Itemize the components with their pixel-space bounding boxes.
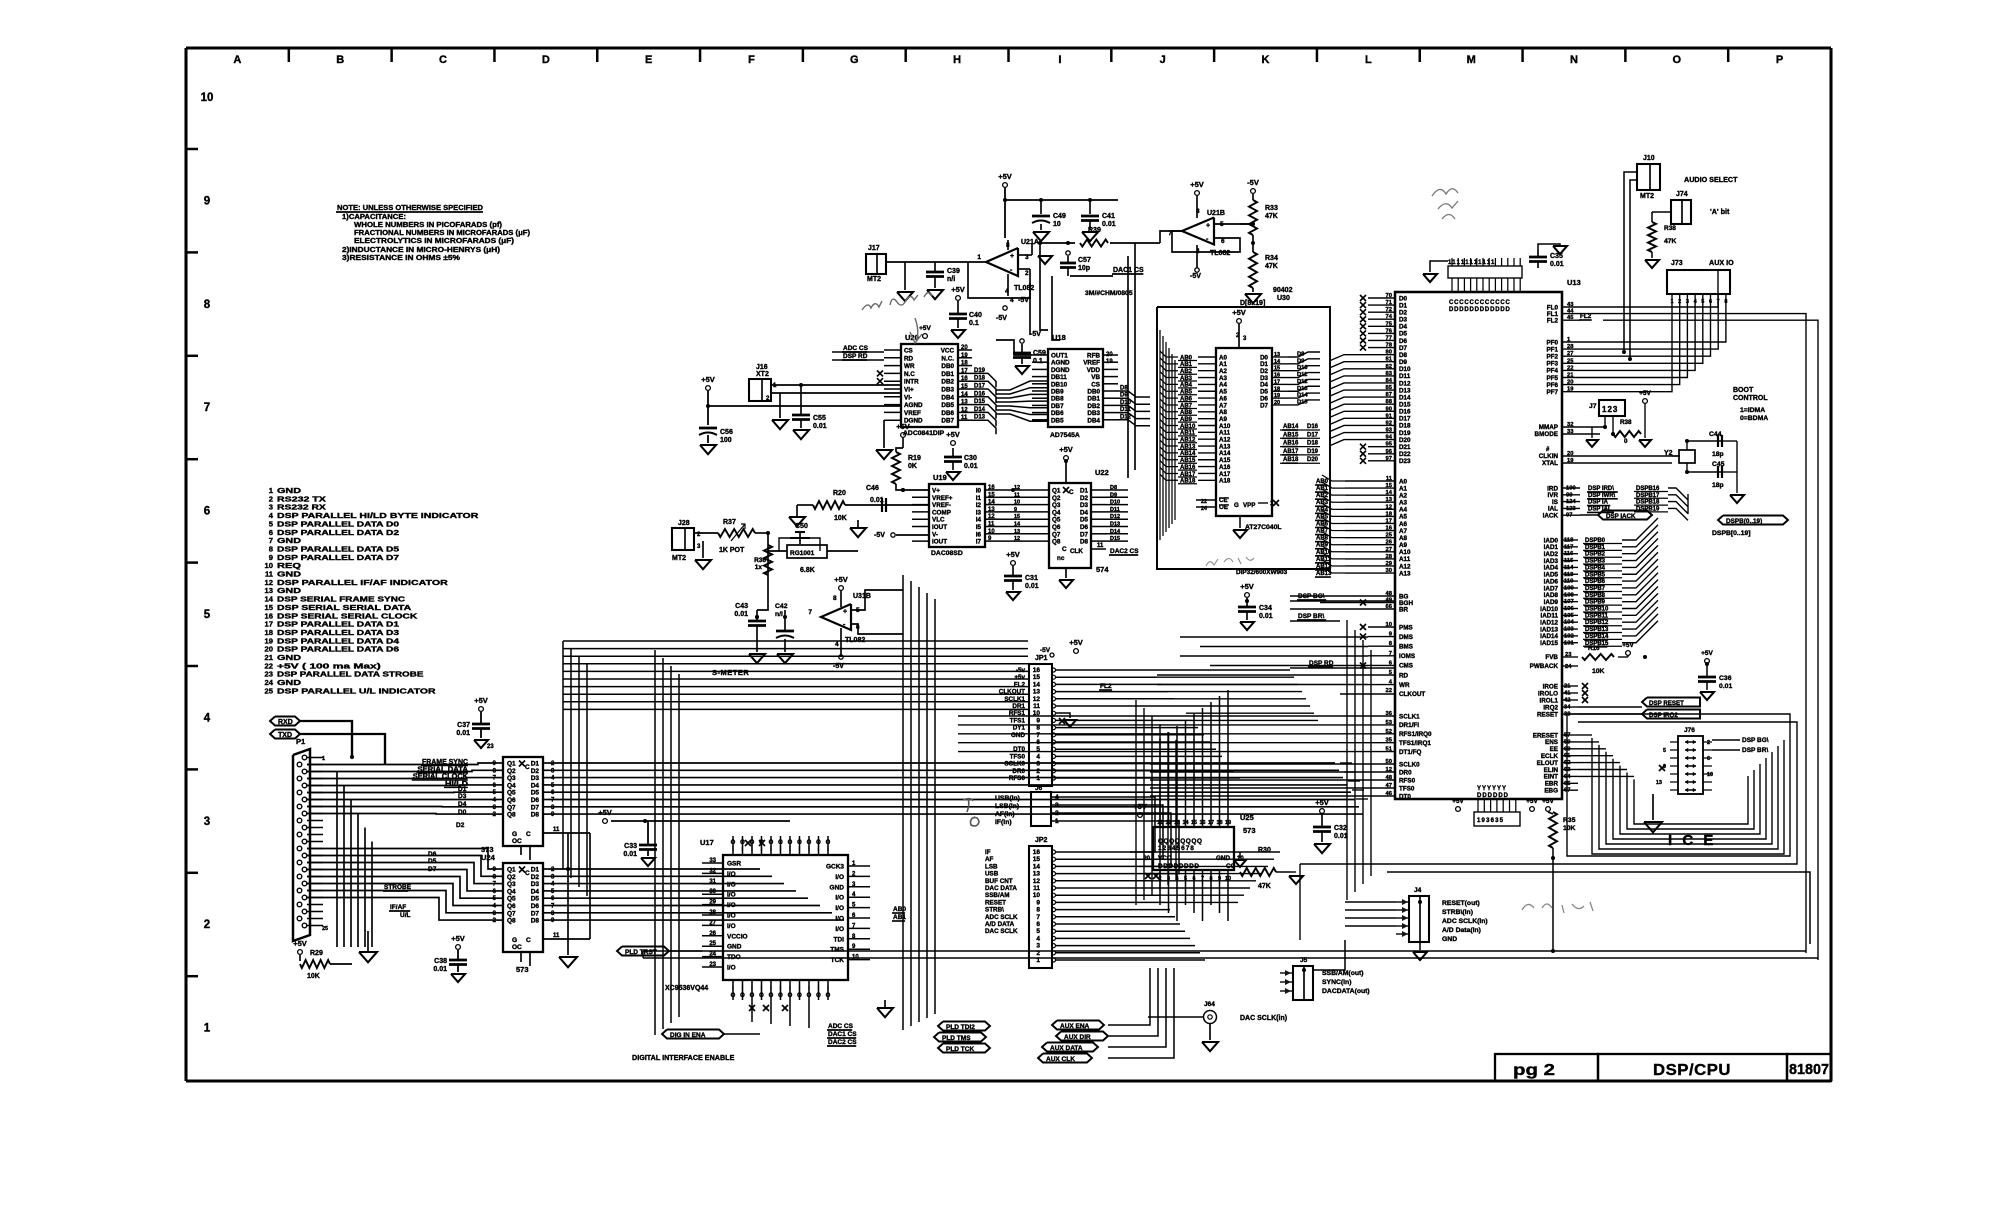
wires opamp U21A [950, 261, 986, 263]
bus box around EPROM D8..19 [1157, 307, 1330, 569]
svg-text:C59: C59 [1033, 350, 1046, 357]
ground J28 [702, 541, 704, 558]
ground crystal [1736, 441, 1738, 493]
svg-text:A2: A2 [1399, 492, 1408, 499]
svg-text:D7: D7 [1080, 531, 1089, 538]
svg-text:D17: D17 [1399, 416, 1411, 423]
svg-text:2: 2 [1025, 270, 1029, 277]
wire bus control rows to cpu left [1290, 595, 1368, 597]
x marks U25 [1145, 873, 1151, 879]
ground under latch bus [567, 833, 569, 955]
svg-text:C: C [1069, 489, 1074, 496]
svg-text:13: 13 [1014, 529, 1020, 535]
net label AUX CLK [1038, 1054, 1092, 1063]
svg-text:A/D Data(in): A/D Data(in) [1442, 927, 1481, 934]
svg-text:D11: D11 [1399, 373, 1411, 380]
svg-text:O: O [1673, 54, 1682, 66]
CPLD U17 XC9536 [723, 855, 848, 980]
svg-text:99: 99 [1566, 492, 1573, 498]
svg-text:13: 13 [1656, 780, 1662, 786]
svg-text:13: 13 [1274, 352, 1280, 358]
wires P1 pins to vertical bus [307, 757, 323, 759]
svg-text:0.01: 0.01 [623, 851, 637, 858]
svg-text:48: 48 [1386, 775, 1393, 781]
svg-text:D3: D3 [1080, 502, 1089, 509]
svg-text:25: 25 [1567, 358, 1574, 364]
resistor R19 10K [892, 452, 900, 484]
svg-text:16: 16 [1033, 667, 1041, 674]
svg-text:P1: P1 [296, 737, 305, 746]
svg-text:19: 19 [1567, 387, 1574, 393]
svg-text:13: 13 [961, 400, 968, 406]
svg-text:DAC SCLK(in): DAC SCLK(in) [1240, 1015, 1287, 1022]
svg-text:RFS1/IRQ0: RFS1/IRQ0 [1399, 731, 1432, 738]
wires JP1 right fan [1056, 669, 1150, 671]
svg-text:32: 32 [709, 868, 716, 874]
svg-text:Q8: Q8 [507, 812, 516, 819]
svg-text:'A' bit: 'A' bit [1710, 207, 1730, 216]
svg-text:DR1: DR1 [1012, 703, 1025, 710]
svg-text:PWBACK: PWBACK [1530, 663, 1559, 670]
svg-text:13: 13 [1033, 689, 1041, 696]
cpu bottom pin numbers box [1474, 812, 1520, 826]
svg-text:C38: C38 [434, 958, 447, 965]
svg-text:D3: D3 [531, 775, 540, 782]
svg-text:14: 14 [1274, 359, 1281, 365]
svg-text:Y2: Y2 [1664, 450, 1673, 457]
svg-text:I/O: I/O [727, 892, 736, 899]
svg-text:GND: GND [1442, 936, 1457, 943]
U25 top pin wires [1159, 738, 1161, 827]
svg-text:9: 9 [204, 195, 210, 207]
svg-text:48: 48 [1386, 591, 1393, 597]
svg-text:Q1: Q1 [507, 761, 516, 768]
svg-text:DB9: DB9 [1051, 389, 1064, 396]
svg-text:DSP IWR\: DSP IWR\ [1588, 493, 1616, 499]
svg-text:8: 8 [204, 299, 211, 311]
svg-text:1: 1 [204, 1023, 211, 1035]
svg-text:N.C: N.C [904, 371, 915, 378]
svg-text:31: 31 [709, 879, 716, 885]
svg-text:R39: R39 [1088, 227, 1101, 234]
wires U21B [1214, 223, 1253, 225]
capacitor C41 0.01 [1089, 200, 1091, 214]
svg-text:Q2: Q2 [507, 768, 516, 775]
svg-text:2: 2 [1707, 740, 1710, 746]
svg-text:DAC2 CS: DAC2 CS [1110, 548, 1139, 555]
ICE wire loops [1578, 734, 1592, 736]
svg-text:4: 4 [835, 641, 839, 648]
ground RG area [850, 528, 866, 537]
svg-text:SSB/AM(out): SSB/AM(out) [1322, 970, 1364, 977]
svg-text:101: 101 [1564, 640, 1574, 646]
svg-text:5: 5 [204, 609, 211, 621]
svg-text:C31: C31 [1025, 575, 1038, 582]
svg-text:D16: D16 [1399, 409, 1411, 416]
svg-text:STRB\(in): STRB\(in) [1442, 909, 1473, 916]
svg-text:CLK: CLK [1070, 548, 1083, 555]
svg-text:DB5: DB5 [941, 402, 954, 409]
svg-text:D18: D18 [1307, 441, 1319, 447]
svg-text:17: 17 [961, 368, 968, 374]
svg-text:DGND: DGND [1051, 367, 1070, 374]
svg-text:6: 6 [1707, 756, 1710, 762]
svg-text:C57: C57 [1078, 257, 1091, 264]
svg-text:SCLK0: SCLK0 [1004, 761, 1025, 768]
svg-text:GND: GND [727, 944, 742, 951]
svg-text:CLKIN: CLKIN [1539, 453, 1559, 460]
capacitor C56 100 [699, 427, 717, 430]
svg-text:6: 6 [1709, 299, 1712, 305]
svg-text:14: 14 [1033, 863, 1041, 870]
svg-text:n/i: n/i [947, 276, 955, 283]
svg-text:78: 78 [1386, 343, 1393, 349]
wire J16 to ADC VI- [771, 392, 901, 394]
svg-text:DAC DATA: DAC DATA [985, 885, 1017, 892]
svg-text:V+: V+ [932, 488, 940, 495]
svg-text:BMS: BMS [1399, 644, 1413, 651]
svg-text:CLKOUT: CLKOUT [999, 689, 1025, 696]
svg-text:PF7: PF7 [1546, 389, 1558, 396]
svg-text:O: O [816, 993, 821, 999]
svg-text:3: 3 [1686, 299, 1689, 305]
svg-text:K: K [1262, 54, 1270, 66]
capacitor C30 0.01 [952, 448, 954, 456]
svg-text:D6: D6 [531, 903, 540, 910]
wire bus P1 vertical columns [336, 772, 338, 948]
svg-text:29: 29 [1386, 561, 1393, 567]
svg-text:+5V: +5V [451, 934, 465, 943]
svg-text:RFS0: RFS0 [1009, 775, 1026, 782]
svg-text:41: 41 [1564, 691, 1571, 697]
svg-text:O: O [816, 840, 821, 846]
latch U23 74x373 [503, 757, 543, 846]
svg-text:DSP/CPU: DSP/CPU [1653, 1062, 1731, 1079]
svg-text:47: 47 [1386, 783, 1392, 789]
svg-text:D8: D8 [531, 812, 540, 819]
svg-text:26: 26 [1386, 540, 1393, 546]
svg-text:DB7: DB7 [1051, 403, 1064, 410]
svg-text:U17: U17 [700, 838, 714, 847]
svg-text:80: 80 [1386, 350, 1392, 356]
svg-text:-5V: -5V [1018, 297, 1029, 304]
svg-text:Q5: Q5 [1052, 517, 1061, 524]
svg-text:O: O [759, 993, 764, 999]
svg-text:100: 100 [720, 437, 732, 444]
net label TXD [270, 730, 300, 739]
svg-text:R34: R34 [1265, 255, 1278, 262]
svg-text:13: 13 [988, 507, 995, 513]
svg-text:84: 84 [1386, 378, 1393, 384]
wire pot to cap node [757, 533, 768, 610]
svg-text:C46: C46 [866, 485, 879, 492]
svg-text:PF4: PF4 [1546, 368, 1558, 375]
svg-text:16: 16 [961, 376, 968, 382]
svg-text:D3: D3 [458, 793, 467, 800]
svg-text:IROE: IROE [1543, 683, 1558, 690]
svg-text:28: 28 [709, 910, 716, 916]
svg-text:TFS0: TFS0 [1399, 785, 1415, 792]
svg-text:0.01: 0.01 [1719, 683, 1732, 690]
svg-text:D[8..19]: D[8..19] [1240, 300, 1265, 307]
svg-text:VDD: VDD [1087, 367, 1101, 374]
vertical wire bundle center2 [902, 575, 904, 1030]
svg-text:VB: VB [1091, 374, 1100, 381]
svg-text:10: 10 [1707, 772, 1713, 778]
svg-text:D2: D2 [531, 874, 540, 881]
svg-text:D8: D8 [1399, 352, 1408, 359]
svg-text:1)CAPACITANCE:: 1)CAPACITANCE: [342, 214, 406, 221]
svg-text:I/O: I/O [727, 881, 736, 888]
wire fan P1 to U24 with net names [307, 849, 497, 870]
long wire bus latch U24 outputs to right [549, 868, 760, 870]
svg-text:28: 28 [1567, 344, 1574, 350]
wires J17 to opamp [886, 261, 950, 263]
svg-text:VI+: VI+ [904, 387, 914, 394]
svg-text:18p: 18p [1712, 482, 1724, 489]
svg-text:ADC CS: ADC CS [828, 1023, 854, 1030]
svg-text:D3: D3 [531, 881, 540, 888]
svg-text:O: O [750, 993, 755, 999]
svg-text:29: 29 [709, 900, 716, 906]
svg-text:B: B [336, 54, 344, 66]
svg-text:C: C [526, 831, 531, 838]
svg-text:pg 2: pg 2 [1513, 1062, 1555, 1079]
bundle D19..D13 into U18 [996, 381, 1048, 390]
svg-text:OC: OC [512, 944, 522, 951]
svg-text:CONTROL: CONTROL [1733, 395, 1768, 402]
svg-text:6.8K: 6.8K [800, 567, 815, 574]
svg-text:A18: A18 [1219, 478, 1231, 485]
svg-text:24: 24 [709, 952, 716, 958]
svg-text:5: 5 [1663, 748, 1666, 754]
svg-text:D10: D10 [1399, 366, 1411, 373]
svg-text:IF/AF: IF/AF [390, 904, 406, 911]
svg-text:RFB: RFB [1087, 353, 1100, 360]
svg-text:PF1: PF1 [1546, 346, 1558, 353]
svg-text:107: 107 [1564, 599, 1574, 605]
title block DSP/CPU [1598, 1054, 1787, 1081]
svg-text:A3: A3 [1399, 500, 1408, 507]
svg-text:11: 11 [553, 933, 560, 939]
opamp U21B TL082 [1182, 218, 1214, 245]
svg-text:D22: D22 [1399, 451, 1411, 458]
svg-text:ELECTROLYTICS IN MICROFARADS (: ELECTROLYTICS IN MICROFARADS (μF) [354, 238, 514, 245]
svg-text:D14: D14 [1110, 529, 1121, 535]
svg-text:18: 18 [1386, 511, 1393, 517]
svg-text:27: 27 [1386, 547, 1392, 553]
wire J16 to ADC VI+ [771, 384, 901, 386]
svg-text:D13: D13 [1399, 387, 1411, 394]
net label PLD TCK [938, 1044, 990, 1053]
svg-text:+5V: +5V [1315, 798, 1329, 807]
svg-text:O: O [778, 993, 783, 999]
ground center bottom [877, 1008, 893, 1017]
svg-text:D5: D5 [531, 896, 540, 903]
svg-text:+5V: +5V [1059, 445, 1073, 454]
svg-text:nc: nc [1057, 555, 1065, 562]
long wire bus latch U23 outputs to right [549, 762, 1335, 764]
svg-text:VCC: VCC [941, 348, 955, 355]
svg-text:D4: D4 [1399, 324, 1408, 331]
resistor R34 47K [1249, 252, 1257, 288]
wire bus DAC08 to U22 [1000, 489, 1049, 491]
wires CPLD bottom to chip selects [751, 1000, 753, 1022]
svg-text:11: 11 [553, 827, 560, 833]
svg-text:24: 24 [1565, 664, 1572, 670]
svg-text:C: C [1062, 546, 1067, 553]
svg-text:0.01: 0.01 [813, 423, 827, 430]
svg-text:OC: OC [512, 838, 522, 845]
svg-text:D11: D11 [1110, 507, 1120, 513]
svg-text:10: 10 [988, 529, 995, 535]
svg-text:D1: D1 [458, 786, 467, 793]
svg-text:114: 114 [1564, 565, 1574, 571]
svg-text:FL2: FL2 [1100, 683, 1112, 690]
svg-text:DR1/FI: DR1/FI [1399, 722, 1419, 729]
svg-text:27: 27 [709, 920, 716, 926]
fan data D8-D20 from eprom bus to cpu [1330, 355, 1368, 361]
svg-text:Q1: Q1 [1052, 488, 1061, 495]
svg-text:D4: D4 [531, 782, 540, 789]
svg-text:12: 12 [1386, 767, 1392, 773]
svg-text:U19: U19 [933, 473, 947, 482]
handwriting rev [1522, 902, 1593, 913]
svg-text:36: 36 [1386, 711, 1393, 717]
svg-text:DSP RD: DSP RD [843, 353, 868, 360]
svg-text:+: + [843, 609, 847, 616]
svg-text:0.01: 0.01 [964, 463, 978, 470]
svg-text:S-METER: S-METER [712, 668, 749, 677]
svg-text:DAC2 CS: DAC2 CS [828, 1039, 857, 1046]
svg-text:1K POT: 1K POT [719, 547, 745, 554]
svg-text:DSPB(0..19): DSPB(0..19) [1726, 518, 1762, 525]
svg-text:J: J [1160, 54, 1166, 66]
svg-text:FL2: FL2 [1014, 681, 1026, 688]
svg-text:16: 16 [988, 485, 995, 491]
svg-text:VREF: VREF [1083, 360, 1100, 367]
svg-text:G: G [512, 937, 517, 944]
svg-text:I/O: I/O [835, 895, 844, 902]
opamp U21A TL082 [986, 248, 1018, 276]
svg-text:+: + [1010, 253, 1014, 260]
svg-text:+5V: +5V [1069, 638, 1083, 647]
vertical wire bundle center [654, 650, 656, 1035]
svg-text:10K: 10K [1563, 825, 1576, 832]
svg-text:8: 8 [833, 595, 837, 602]
wire DAC1 bus verticals [1127, 256, 1129, 478]
svg-text:116: 116 [1564, 551, 1574, 557]
svg-text:10: 10 [201, 92, 214, 104]
svg-text:32: 32 [1567, 422, 1573, 428]
svg-text:BOOT: BOOT [1733, 387, 1754, 394]
wire bus JP1 to right bends [1150, 669, 1290, 671]
svg-text:DT0: DT0 [1399, 793, 1411, 800]
svg-text:DB3: DB3 [941, 387, 954, 394]
svg-text:R37: R37 [723, 519, 736, 526]
svg-text:L: L [1365, 54, 1372, 66]
svg-text:DDDDDDDDDDDD: DDDDDDDDDDDD [1449, 307, 1511, 313]
power rail vertical for latches [589, 833, 591, 939]
svg-text:+5V: +5V [1006, 550, 1020, 559]
svg-text:44: 44 [1567, 309, 1574, 315]
ground near U21A out [1038, 256, 1052, 264]
fan eprom data to D8..D15 [1288, 352, 1320, 357]
svg-text:GSR: GSR [727, 861, 741, 868]
svg-text:Q6: Q6 [507, 797, 516, 804]
svg-text:14: 14 [1033, 681, 1041, 688]
svg-text:+5V: +5V [474, 696, 488, 705]
svg-text:RXD: RXD [278, 719, 293, 726]
svg-text:LSB(in): LSB(in) [995, 803, 1019, 810]
svg-text:D: D [542, 54, 550, 66]
svg-text:D2: D2 [531, 768, 540, 775]
svg-text:I3: I3 [976, 509, 982, 516]
ground U22 [1065, 568, 1067, 578]
svg-text:90402: 90402 [1273, 287, 1293, 294]
svg-text:8: 8 [1036, 907, 1040, 914]
svg-text:30: 30 [709, 889, 716, 895]
svg-text:5: 5 [1036, 928, 1040, 935]
svg-text:D4: D4 [1080, 509, 1089, 516]
svg-text:DB1: DB1 [941, 371, 954, 378]
long wire bus middle rows to JP1 [563, 640, 1028, 642]
svg-text:TDI: TDI [834, 936, 845, 943]
wire U22 outputs right D8-D15 [1106, 489, 1128, 491]
svg-text:90: 90 [1386, 406, 1392, 412]
svg-text:23: 23 [487, 744, 494, 750]
svg-text:O: O [778, 840, 783, 846]
svg-text:94: 94 [1386, 435, 1393, 441]
svg-text:Q4: Q4 [1052, 509, 1061, 516]
svg-text:D9: D9 [1110, 492, 1117, 498]
svg-text:TL082: TL082 [845, 637, 865, 644]
svg-text:D23: D23 [1399, 458, 1411, 465]
svg-text:D21: D21 [1399, 444, 1411, 451]
net label DSP RESET [1642, 698, 1700, 707]
svg-text:TMS: TMS [830, 947, 844, 954]
svg-text:70: 70 [1386, 293, 1392, 299]
svg-text:10p: 10p [1078, 265, 1090, 272]
wire U18 pin1 left [996, 340, 1032, 355]
svg-text:LSB: LSB [985, 863, 998, 870]
wires FL0-FL2 to right [1580, 270, 1718, 307]
svg-text:FRACTIONAL NUMBERS IN MICROFAR: FRACTIONAL NUMBERS IN MICROFARADS (μF) [354, 230, 530, 237]
svg-text:-5V: -5V [1190, 273, 1201, 280]
svg-text:11: 11 [1033, 885, 1040, 892]
svg-text:50: 50 [1386, 759, 1392, 765]
svg-text:0.01: 0.01 [433, 966, 447, 973]
svg-text:IROLO: IROLO [1538, 690, 1558, 697]
svg-text:DB1: DB1 [1087, 396, 1100, 403]
svg-text:G: G [1234, 502, 1239, 509]
svg-text:12: 12 [1386, 504, 1392, 510]
svg-text:G: G [512, 831, 517, 838]
svg-text:RD: RD [1399, 672, 1409, 679]
svg-text:DY1: DY1 [1013, 725, 1026, 732]
svg-text:118: 118 [1564, 538, 1574, 544]
svg-text:IRQ2: IRQ2 [1543, 704, 1558, 711]
svg-text:93: 93 [1386, 428, 1393, 434]
svg-text:115: 115 [1564, 558, 1574, 564]
svg-text:C40: C40 [969, 312, 982, 319]
svg-text:IACK: IACK [1543, 513, 1559, 520]
svg-text:19: 19 [961, 353, 968, 359]
svg-text:6: 6 [204, 506, 210, 518]
vertical bus stubs left middle [562, 641, 564, 869]
eprom ground pin [1239, 516, 1241, 528]
svg-text:AT27C040L: AT27C040L [1245, 524, 1282, 531]
